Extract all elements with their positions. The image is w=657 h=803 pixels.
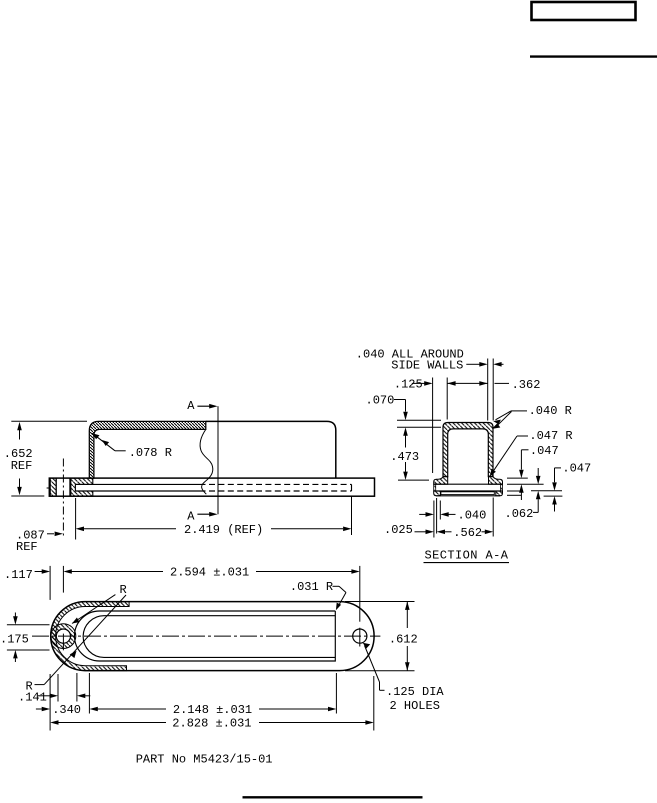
left hole vertical centerline [62, 566, 64, 593]
dim 2.419 (REF) line with arrows [76, 527, 84, 532]
dim .652 REF extension line bottom [11, 495, 44, 497]
plate slot top line [434, 483, 503, 485]
crimp C-section (hatched) [71, 478, 93, 496]
plate slot top line (solid left of break) [75, 483, 205, 485]
svg-text:.125 DIA: .125 DIA [386, 685, 444, 699]
ear hole right edge [69, 478, 71, 496]
ext line plan left edge [49, 566, 51, 600]
dim .652 REF extension line top [11, 420, 87, 422]
horizontal centerline [32, 635, 380, 637]
arrow A top [197, 405, 211, 407]
svg-text:.362: .362 [512, 378, 541, 392]
bottom inset rectangle [441, 492, 494, 495]
left foot flare (hatched) [434, 476, 448, 484]
cover exterior outline right of break [206, 421, 336, 478]
dim .362 arrows [447, 381, 455, 386]
hidden crimp end (dashed vertical) [351, 484, 353, 491]
title block box (top right) [532, 2, 636, 20]
crimp hatched band (left arc and edges) [51, 602, 129, 671]
svg-text:SIDE WALLS: SIDE WALLS [391, 359, 463, 373]
inner opening second line [83, 616, 335, 658]
section cut line A-A [217, 406, 219, 514]
dim .473 (shares stem) [403, 427, 408, 435]
dim 2.148 [98, 708, 167, 710]
svg-text:.047 R: .047 R [529, 429, 572, 443]
inner opening outline [75, 611, 336, 661]
leader .078 R with two arrows [92, 433, 115, 451]
plan outline (stadium) [51, 602, 374, 671]
break line (wavy) [200, 429, 213, 494]
dim .652 arrow down [17, 487, 22, 495]
svg-text:2.148 ±.031: 2.148 ±.031 [173, 703, 252, 717]
svg-text:.031 R: .031 R [290, 580, 333, 594]
ear hole left edge [55, 478, 57, 496]
plate slot bottom line [434, 490, 503, 492]
svg-text:.117: .117 [4, 568, 33, 582]
svg-text:.040: .040 [458, 509, 487, 523]
svg-text:.175: .175 [0, 632, 29, 646]
plate slot hidden bottom line (dashed) [209, 490, 352, 492]
extension line for 2.419 left [75, 498, 77, 540]
right hole vertical centerline [359, 566, 361, 622]
bottom page rule [243, 796, 423, 798]
left hole [56, 629, 70, 643]
dim 2.594 line [63, 569, 71, 574]
dim .175 arrows [14, 613, 16, 617]
svg-text:A: A [187, 510, 195, 524]
svg-text:.078 R: .078 R [129, 446, 172, 460]
side walls pointer line and arrows [466, 363, 480, 365]
svg-text:.040 R: .040 R [529, 404, 572, 418]
right hole [353, 629, 367, 643]
svg-text:2.594 ±.031: 2.594 ±.031 [170, 566, 249, 580]
small tick left of ear [47, 487, 50, 489]
bottom ext lines [49, 674, 51, 731]
left curl wall (hatched) [434, 484, 436, 491]
wall extension lines up [487, 359, 489, 421]
svg-text:.070: .070 [366, 394, 395, 408]
dim .612 [406, 602, 408, 629]
svg-text:.562: .562 [453, 526, 482, 540]
extension line for 2.419 right [351, 496, 353, 535]
svg-text:SECTION A-A: SECTION A-A [425, 549, 509, 563]
plate slot bottom line (solid left of break) [75, 490, 205, 492]
bottom line [436, 495, 500, 497]
left bottom curl (hatched) [434, 491, 441, 496]
dim .652 arrow up [17, 422, 22, 430]
cover sectioned wall and top (hatched) [89, 421, 206, 478]
plate slot hidden top line (dashed) [209, 483, 352, 485]
svg-text:2.419 (REF): 2.419 (REF) [184, 523, 263, 537]
ear hatched end (left) [50, 478, 56, 496]
svg-text:.612: .612 [389, 632, 418, 646]
dim .612 ext lines [345, 601, 415, 603]
dim .562 [437, 530, 445, 535]
grommet annulus around left hole (hatched) [51, 624, 76, 649]
svg-text:A: A [187, 399, 195, 413]
dim .340 [36, 708, 42, 710]
svg-text:.025: .025 [384, 523, 413, 537]
right curl wall (hatched) [501, 484, 503, 491]
svg-text:2.828 ±.031: 2.828 ±.031 [172, 717, 251, 731]
dim .087 arrow [47, 533, 54, 535]
brim top extension line [398, 479, 429, 481]
SECTION A-A underline [424, 562, 510, 564]
dim 2.828 [50, 720, 58, 725]
svg-text:REF: REF [11, 459, 33, 473]
.070 extension lines [397, 419, 441, 421]
right bottom curl (hatched) [496, 491, 503, 496]
svg-text:.062: .062 [505, 507, 534, 521]
svg-text:.047: .047 [530, 444, 559, 458]
svg-text:.473: .473 [390, 450, 419, 464]
header rule line (top right) [530, 55, 657, 57]
svg-text:REF: REF [16, 540, 38, 554]
svg-text:.047: .047 [562, 462, 591, 476]
svg-text:.141: .141 [18, 690, 47, 704]
base strip outline [49, 478, 374, 496]
dim .175 ext lines [7, 624, 50, 626]
ear hole centerline [62, 459, 64, 538]
right foot flare (hatched) [489, 476, 503, 484]
svg-text:PART No M5423/15-01: PART No M5423/15-01 [136, 752, 273, 766]
bottom extension lines [433, 501, 435, 538]
right side extension lines [507, 477, 528, 479]
svg-text:.340: .340 [52, 703, 81, 717]
leader .125 DIA 2 HOLES [363, 643, 370, 649]
svg-text:2 HOLES: 2 HOLES [390, 699, 440, 713]
ext line for .125 left [432, 378, 434, 474]
hat walls and top (hatched) [443, 423, 493, 477]
dim .040 bottom [419, 513, 426, 515]
arrow A bottom [197, 513, 211, 515]
ext line for .125/.362 middle [446, 378, 448, 420]
svg-text:.125: .125 [394, 378, 423, 392]
